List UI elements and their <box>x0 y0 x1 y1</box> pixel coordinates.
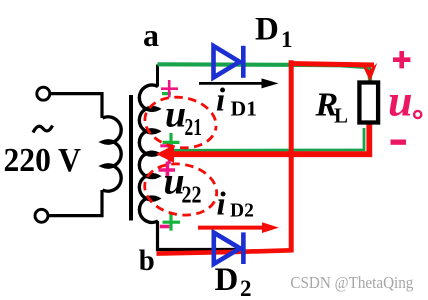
magenta plus (output) <box>393 51 410 68</box>
red wire: top run to RL with down arrow <box>289 64 374 66</box>
magenta minus bar (secondary bottom) <box>160 225 170 229</box>
resistor RL body <box>359 83 378 123</box>
terminal bottom-left <box>35 209 48 222</box>
svg-text:D1: D1 <box>231 97 258 121</box>
svg-text:220 V: 220 V <box>4 142 82 179</box>
svg-text:D: D <box>255 12 279 48</box>
svg-text:CSDN @ThetaQing: CSDN @ThetaQing <box>290 273 413 292</box>
svg-text:u: u <box>165 94 186 136</box>
svg-text:u: u <box>388 77 412 126</box>
red arrow iD2 <box>198 226 263 230</box>
svg-text:2: 2 <box>240 276 252 300</box>
wire: primary loop from AC terminals <box>49 94 102 216</box>
black arrow iD1 <box>199 82 264 85</box>
magenta minus (output) <box>391 140 407 145</box>
svg-text:D2: D2 <box>230 201 254 222</box>
green minus bar (secondary top) <box>162 92 171 95</box>
red wire: vertical bus from top junction to bottom <box>289 60 294 252</box>
svg-text:L: L <box>334 104 348 128</box>
green wire: a to D1 to junction (top) <box>158 64 371 83</box>
magenta plus (secondary top) <box>161 80 178 98</box>
svg-text:i: i <box>217 187 227 223</box>
svg-text:D: D <box>215 262 239 298</box>
svg-text:i: i <box>216 83 226 119</box>
wire: node a down to secondary top <box>156 65 159 87</box>
transformer primary winding <box>103 117 122 191</box>
wire: secondary bottom to node b corner <box>158 221 241 250</box>
terminal top-left <box>37 87 50 100</box>
AC tilde symbol <box>33 126 53 133</box>
dashed ellipse u22 loop <box>141 158 221 220</box>
svg-text:22: 22 <box>182 183 202 209</box>
green plus (secondary bottom) <box>163 213 181 230</box>
red arrowhead into center tap <box>156 145 174 163</box>
diode D2 <box>214 232 244 264</box>
svg-text:1: 1 <box>281 27 293 52</box>
red wire: RL bottom down and left to center tap <box>172 124 369 154</box>
svg-text:21: 21 <box>185 115 203 141</box>
red wire: bottom run D2 cathode to bus <box>157 250 292 253</box>
diode D1 <box>214 46 244 78</box>
svg-text:a: a <box>143 17 159 53</box>
svg-text:b: b <box>139 244 155 277</box>
transformer secondary winding (6 bumps, center tap) <box>139 85 158 222</box>
green wire: center tap to RL bottom (under red) <box>166 128 364 150</box>
output circle subscript <box>414 111 421 118</box>
dashed ellipse u21 loop <box>141 92 220 153</box>
magenta plus (center tap, hidden) <box>160 142 173 164</box>
magenta plus (below tap) <box>159 162 176 179</box>
transformer core <box>129 95 133 221</box>
red arrowhead into RL top <box>362 63 377 82</box>
green plus (mid, above tap) <box>163 133 180 152</box>
